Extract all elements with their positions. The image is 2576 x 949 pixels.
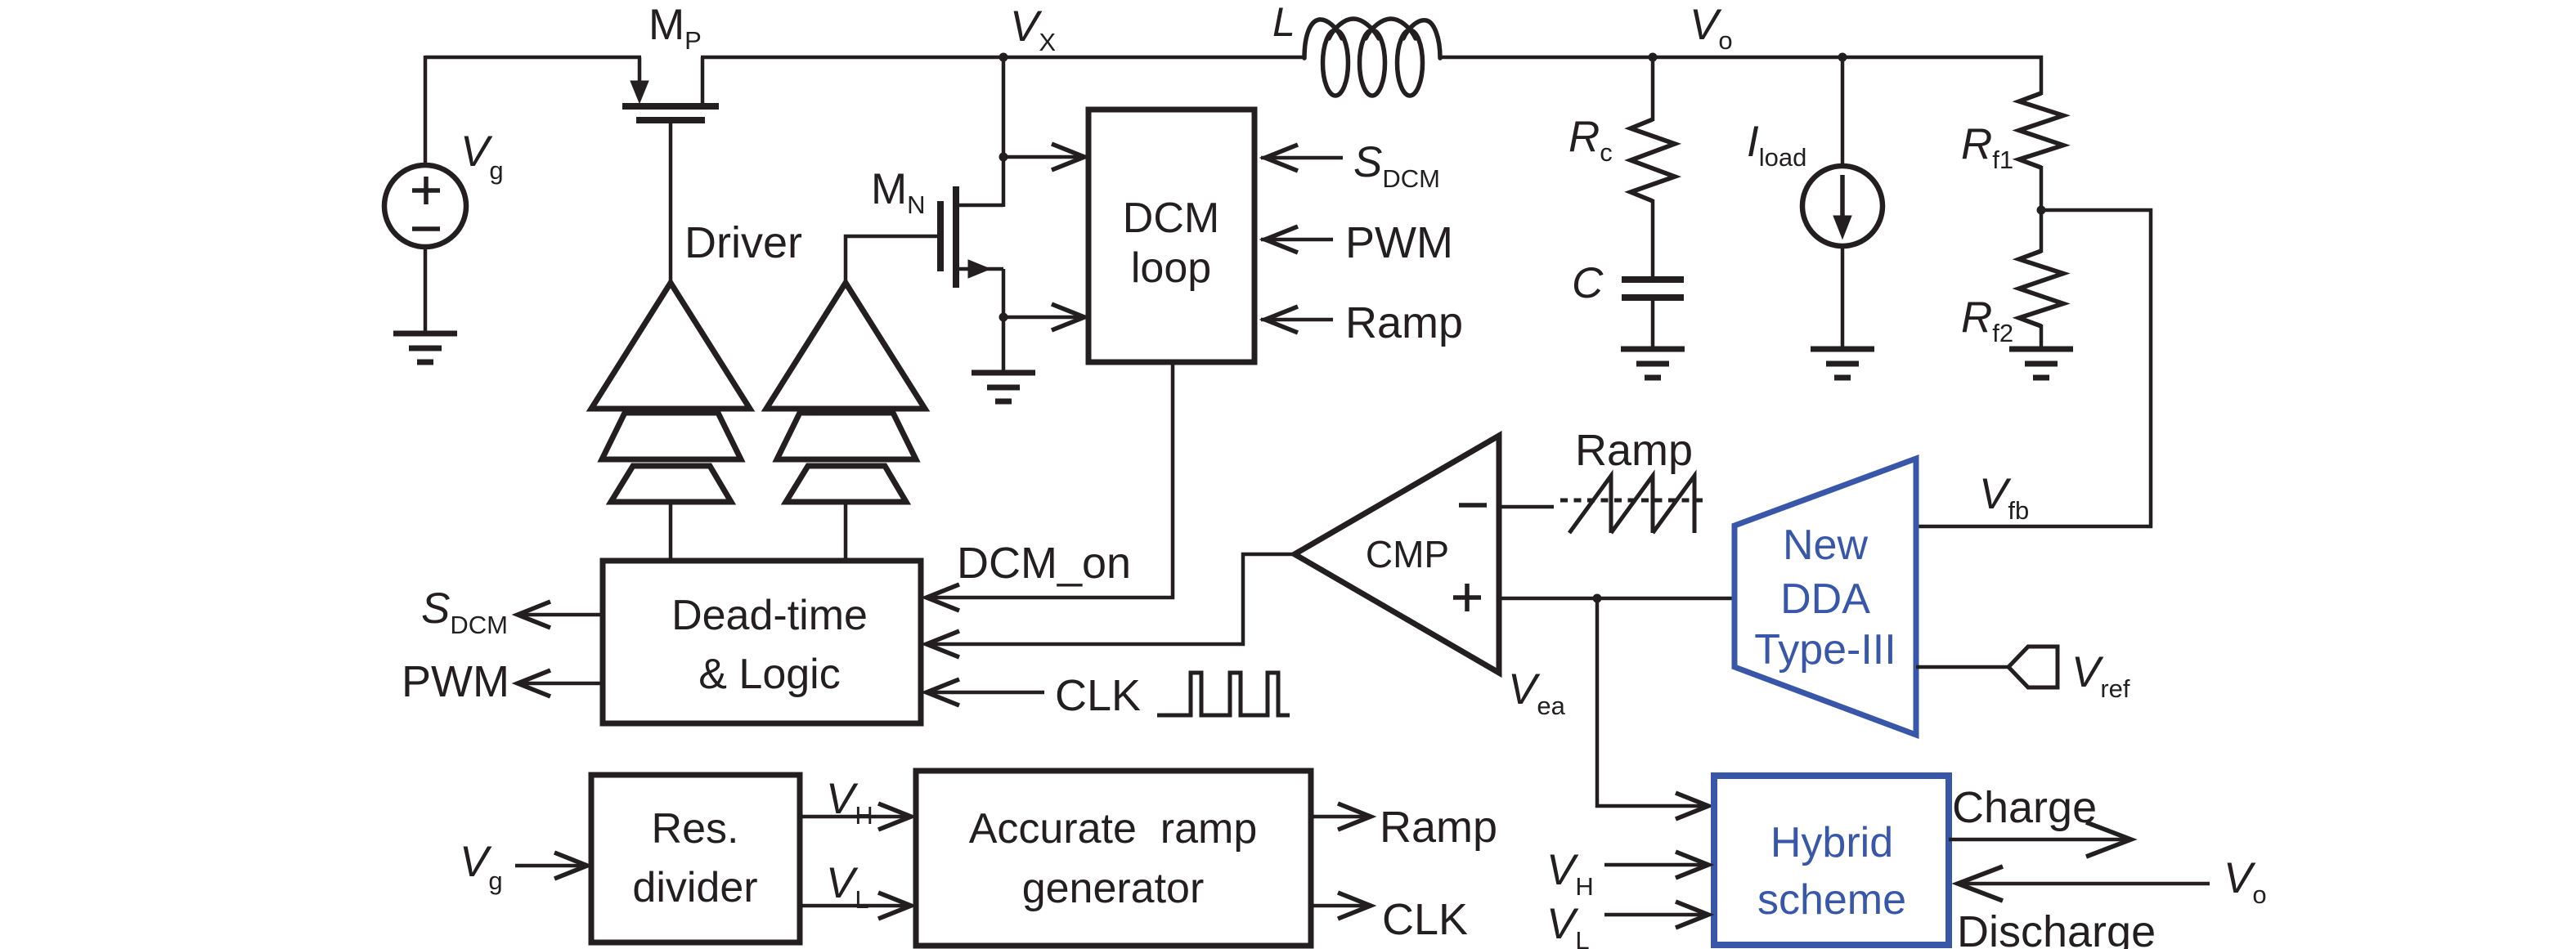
svg-text:SDCM: SDCM: [1353, 138, 1440, 193]
wire Rc to C: [1651, 199, 1655, 277]
junction VX sense tap: [999, 153, 1008, 162]
ground under Iload: [1811, 347, 1874, 352]
svg-text:CLK: CLK: [1382, 895, 1468, 944]
wire Vo into hybrid: [1958, 882, 2210, 886]
svg-text:Type-III: Type-III: [1754, 626, 1896, 674]
wire top rail MP drain to inductor: [701, 56, 1306, 60]
wire C to ground: [1651, 299, 1655, 351]
wire CLK into logic box: [927, 691, 1044, 695]
wire Ramp output: [1311, 815, 1371, 819]
wire VL into hybrid: [1604, 913, 1708, 917]
svg-text:Vg: Vg: [460, 838, 503, 895]
amplifier New DDA Type-III: [1735, 459, 1916, 735]
driver buffer chain right (MN): [766, 283, 925, 409]
svg-text:Driver: Driver: [684, 218, 802, 267]
svg-text:Accurate ramp: Accurate ramp: [969, 805, 1258, 853]
svg-text:New: New: [1783, 522, 1868, 569]
wire SDCM output: [518, 613, 604, 617]
wire MP drain up to rail: [701, 57, 705, 106]
wire MP gate down to driver: [669, 120, 673, 284]
svg-text:scheme: scheme: [1757, 876, 1906, 924]
wire PWM into DCM loop: [1261, 238, 1333, 242]
driver buffer chain left (MP): [591, 283, 750, 409]
op-amp CMP comparator: [1295, 436, 1499, 673]
wire right driver to logic box: [844, 502, 848, 562]
wire Vg into res divider: [515, 864, 587, 868]
block Hybrid scheme: [1714, 776, 1949, 945]
block Accurate ramp generator: [916, 771, 1311, 946]
svg-text:MN: MN: [871, 165, 926, 219]
wire VH res divider to ramp gen: [800, 815, 911, 819]
svg-text:C: C: [1572, 259, 1604, 307]
svg-text:Vea: Vea: [1508, 665, 1566, 720]
wire top rail inductor to Rf1 corner: [1440, 57, 2041, 95]
svg-text:CMP: CMP: [1366, 533, 1449, 575]
junction MN source tap: [999, 313, 1008, 322]
wire VH into hybrid: [1604, 863, 1708, 867]
svg-text:Rf1: Rf1: [1961, 120, 2013, 174]
voltage source Vg: [384, 165, 466, 247]
wire CMP minus input stub: [1499, 505, 1554, 509]
svg-text:divider: divider: [632, 864, 757, 911]
wire Vfb net: [1914, 210, 2151, 526]
wire MN drain: [956, 204, 1003, 208]
wire Vg bottom lead: [424, 245, 428, 335]
block Dead-time & Logic: [603, 561, 921, 723]
wire Rf2 to ground: [2040, 325, 2044, 351]
node Vo at Iload: [1838, 53, 1847, 62]
svg-text:DCM: DCM: [1123, 195, 1219, 242]
svg-text:VX: VX: [1010, 2, 1056, 56]
svg-text:Discharge: Discharge: [1957, 907, 2156, 949]
svg-text:PWM: PWM: [1345, 218, 1453, 267]
resistor Rf1: [2019, 93, 2063, 168]
wire left driver to logic box: [669, 502, 673, 562]
svg-text:Vo: Vo: [2224, 854, 2267, 909]
wire VL res divider to ramp gen: [800, 904, 911, 908]
wire Vea to hybrid scheme: [1597, 598, 1708, 806]
wire CMP plus input from DDA: [1499, 597, 1735, 601]
svg-text:Ramp: Ramp: [1380, 803, 1497, 852]
ground under C: [1621, 347, 1685, 352]
wire top rail Vg to MP source: [425, 56, 641, 60]
wire VX vertical to MN drain: [1002, 57, 1006, 207]
arrow MN source: [968, 260, 990, 278]
inductor L: [1304, 20, 1342, 58]
svg-text:SDCM: SDCM: [421, 584, 508, 639]
svg-text:Res.: Res.: [652, 805, 739, 853]
svg-text:Iload: Iload: [1747, 118, 1806, 172]
current source Iload: [1802, 166, 1883, 246]
node Vo at Rc: [1649, 53, 1658, 62]
svg-text:VL: VL: [826, 859, 869, 914]
wire Vo to Iload: [1841, 57, 1845, 167]
wire PWM output: [518, 682, 604, 686]
svg-text:MP: MP: [648, 1, 702, 55]
CMP minus sign: [1459, 503, 1487, 508]
svg-text:Ramp: Ramp: [1575, 426, 1693, 475]
svg-text:VH: VH: [1546, 846, 1594, 901]
resistor Rf2: [2019, 251, 2063, 326]
wire MN source down: [1002, 269, 1006, 374]
wire Iload to ground: [1841, 245, 1845, 351]
wire Vo to Rc: [1651, 57, 1655, 121]
resistor Rc: [1631, 119, 1675, 201]
wire SDCM into DCM loop: [1261, 156, 1343, 160]
svg-text:Rc: Rc: [1568, 113, 1613, 167]
node Vfb divider: [2037, 206, 2046, 215]
capacitor C: [1622, 276, 1684, 283]
wire VX to DCM loop input 1: [1003, 155, 1088, 159]
wire DCM_on: [927, 362, 1173, 598]
waveform Ramp sawtooth: [1560, 499, 1708, 503]
svg-text:PWM: PWM: [402, 657, 509, 706]
svg-text:CLK: CLK: [1055, 671, 1141, 720]
transistor MN (NMOS): [937, 201, 944, 271]
svg-text:VH: VH: [826, 775, 873, 830]
svg-text:DDA: DDA: [1780, 575, 1870, 623]
block DCM loop: [1088, 110, 1254, 362]
svg-text:Ramp: Ramp: [1345, 298, 1463, 347]
wire MN gate: [846, 236, 940, 284]
svg-text:Hybrid: Hybrid: [1770, 819, 1893, 866]
ground under Vg: [393, 331, 457, 337]
svg-text:L: L: [1272, 0, 1295, 45]
wire Ramp into DCM loop: [1261, 318, 1333, 322]
wire MN source to DCM loop input 2: [1003, 316, 1088, 320]
waveform CLK pulses: [1157, 673, 1290, 715]
CMP plus sign: [1453, 595, 1481, 600]
svg-text:DCM_on: DCM_on: [957, 539, 1131, 588]
wire Vref input: [1916, 665, 2010, 669]
port Vref pentagon: [2008, 647, 2058, 687]
wire CLK output: [1311, 904, 1371, 908]
svg-text:loop: loop: [1131, 244, 1211, 292]
wire CMP output to logic box: [927, 554, 1295, 644]
svg-text:& Logic: & Logic: [698, 651, 840, 698]
svg-text:VL: VL: [1546, 900, 1590, 949]
svg-text:Rf2: Rf2: [1961, 293, 2013, 347]
node VX junction: [999, 53, 1008, 62]
svg-text:Dead-time: Dead-time: [671, 592, 868, 639]
node Vea: [1593, 594, 1602, 603]
ground under Rf2: [2009, 347, 2073, 352]
svg-text:Vo: Vo: [1690, 1, 1733, 55]
svg-text:Vref: Vref: [2071, 648, 2130, 703]
wire Vg top lead: [424, 56, 428, 167]
wire Charge output: [1949, 838, 2131, 842]
wire Rf1 to node: [2040, 166, 2044, 253]
svg-text:Vfb: Vfb: [1979, 470, 2029, 525]
block Res. divider: [591, 775, 800, 942]
svg-text:Charge: Charge: [1952, 783, 2097, 832]
transistor MP (PMOS): [638, 57, 642, 83]
svg-text:generator: generator: [1022, 865, 1205, 912]
svg-text:Vg: Vg: [460, 128, 504, 185]
ground under MN: [972, 370, 1035, 376]
